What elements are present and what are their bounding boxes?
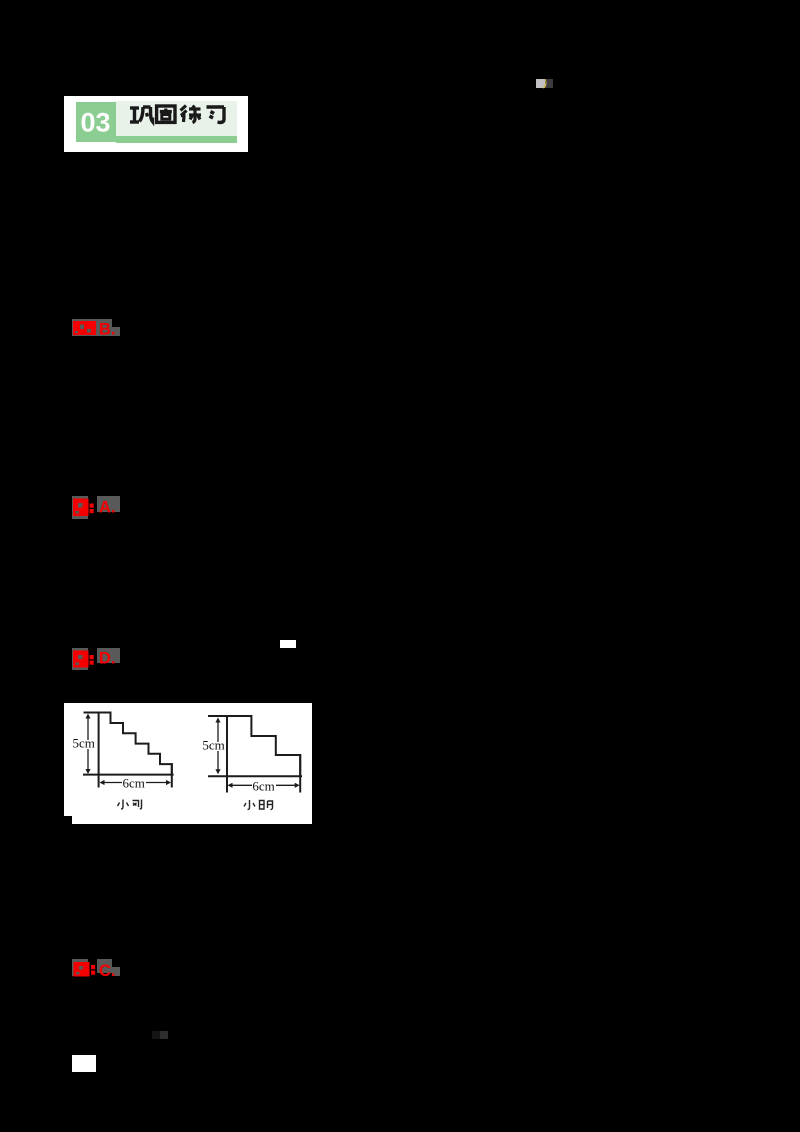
answer 1 grey highlight [72,319,112,336]
right staircase outline [209,716,301,792]
header title 巩固练习 drawn strokes [129,101,227,129]
answer 3 red char blob 选 [72,648,120,670]
small white rect above panel [280,640,296,648]
svg-text:5cm: 5cm [73,736,95,751]
header 03 digits [76,102,116,142]
left stair top tick [85,712,99,714]
figures panel [64,703,312,824]
svg-text:A.: A. [99,499,116,517]
right stair right vertical [299,755,301,792]
header pale green tint behind title [114,101,237,137]
svg-text:C.: C. [99,962,116,979]
answer 1 red char blob 故选: [72,319,120,337]
left stair baseline [84,774,173,776]
answer 2 red char blob 选 [72,496,120,518]
top small icon: light grey tile [536,79,545,88]
top small icon: yellow pen mark [540,79,548,89]
right label 小明 strokes [244,800,273,810]
svg-text:6cm: 6cm [123,776,145,791]
svg-text:5cm: 5cm [202,738,224,753]
svg-text:B.: B. [99,321,116,338]
faint dark square pair near bottom [152,1031,160,1039]
right stair baseline [209,775,301,777]
svg-text:03: 03 [80,108,110,138]
top small icon: dark grey tile [545,79,553,88]
right stair main vertical [226,716,228,792]
red colon [91,965,95,969]
svg-text:D.: D. [99,650,116,668]
header badge white box [64,96,248,152]
svg-text:6cm: 6cm [252,778,274,793]
header green square 03 [76,102,116,142]
right 5cm arrow [215,718,220,775]
char 固 [157,106,175,122]
char 习 [207,107,225,123]
small white rect bottom left [72,1055,96,1072]
left stair right vertical to dim line [171,764,173,786]
left stair main vertical [98,713,100,787]
left staircase outline [99,713,172,775]
red colon [90,504,94,508]
char 巩 [130,107,153,122]
right 6cm dim line [228,783,300,788]
left 5cm arrow [85,714,90,775]
header green underline bar [116,136,237,143]
answer 4 red char blob 选 [72,959,120,979]
left label 小刚 strokes [118,800,142,810]
red colon [90,655,94,659]
answer 4 grey highlight [72,959,88,976]
char 练 [181,106,202,123]
answer 3 grey highlight [72,648,88,670]
black notch bottom-left of panel [64,816,72,824]
right stair top tick [209,715,227,717]
answer 2 grey highlight [72,496,88,519]
left 6cm dim line [100,780,172,785]
